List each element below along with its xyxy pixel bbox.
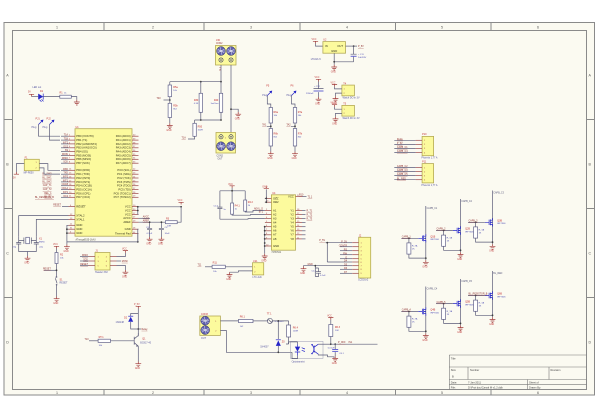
svg-text:LS1: LS1 bbox=[253, 260, 258, 263]
wire R30 top bbox=[200, 82, 202, 94]
mcu pin PD4 bbox=[69, 184, 92, 188]
svg-text:IRF7306: IRF7306 bbox=[497, 296, 506, 298]
svg-text:GND: GND bbox=[24, 263, 29, 265]
resistor R5a bbox=[168, 85, 178, 97]
svg-text:P_OFF: P_OFF bbox=[338, 342, 346, 344]
mcu pin PB1 bbox=[69, 138, 88, 142]
net label CAPB_2 bbox=[436, 228, 453, 232]
svg-text:R5a: R5a bbox=[173, 86, 178, 89]
svg-text:GND: GND bbox=[422, 267, 427, 269]
ic2 pin A2 bbox=[265, 212, 277, 216]
isp pin stub R2 bbox=[110, 260, 117, 262]
svg-text:GND: GND bbox=[308, 264, 313, 266]
svg-text:100R: 100R bbox=[293, 330, 299, 332]
wire watch T4 pin2 bbox=[336, 93, 342, 96]
svg-text:CAP_T1: CAP_T1 bbox=[43, 184, 53, 187]
wire opto led bottom bbox=[292, 352, 298, 358]
svg-text:REL_1: REL_1 bbox=[44, 193, 52, 195]
phoenix connector P10 bbox=[421, 133, 437, 160]
svg-text:CAPB_C3: CAPB_C3 bbox=[493, 191, 504, 194]
mcu pin GND4 bbox=[125, 227, 139, 231]
buffer U4 74HC541 bbox=[271, 192, 295, 254]
ic2 pin A8 bbox=[265, 237, 277, 241]
lcd pin 8 bbox=[352, 269, 362, 271]
mcu pin PC5 bbox=[118, 188, 138, 192]
ground Q6B bbox=[489, 317, 495, 326]
fuse F2 bbox=[267, 313, 285, 324]
lcd pin 4 bbox=[352, 255, 362, 257]
isp pin stub L3 bbox=[89, 265, 96, 267]
power flag VCC reset bbox=[53, 244, 59, 249]
svg-text:Y7: Y7 bbox=[290, 233, 294, 237]
svg-text:Y8: Y8 bbox=[290, 237, 294, 241]
svg-text:File:: File: bbox=[451, 386, 456, 390]
svg-text:PD5 (OC1A): PD5 (OC1A) bbox=[76, 188, 92, 192]
svg-text:C: C bbox=[6, 252, 9, 256]
svg-text:J30: J30 bbox=[216, 39, 221, 42]
svg-text:C4.1: C4.1 bbox=[312, 271, 317, 273]
svg-text:PC1 (SDA): PC1 (SDA) bbox=[117, 172, 131, 176]
resistor gate Q3B bbox=[474, 227, 485, 238]
ic2 pin A3 bbox=[265, 216, 277, 220]
ic2 pin A6 bbox=[265, 229, 277, 233]
wire xtal gnd rail bbox=[19, 248, 37, 256]
ground Q5B bbox=[457, 325, 463, 334]
svg-text:3: 3 bbox=[250, 26, 252, 30]
wire pullup to node bbox=[330, 337, 332, 345]
ic2 pin Y1 bbox=[290, 208, 302, 212]
lcd pin 1 bbox=[352, 243, 362, 245]
mcu pin PC1 bbox=[117, 172, 138, 176]
wire rc to ic2 a1 bbox=[220, 218, 265, 221]
svg-text:5: 5 bbox=[441, 26, 443, 30]
phoenix pin wire CAPB_C5 bbox=[394, 173, 422, 176]
svg-text:BL_RESISTOR_B: BL_RESISTOR_B bbox=[35, 197, 54, 199]
svg-text:TA2: TA2 bbox=[286, 123, 291, 126]
svg-text:PJ2: PJ2 bbox=[47, 118, 52, 121]
svg-text:GND: GND bbox=[125, 227, 131, 231]
wire ic2 out Y6 bbox=[302, 230, 306, 232]
svg-text:CAPB_2: CAPB_2 bbox=[437, 228, 447, 231]
lcd pin 7 bbox=[352, 266, 362, 268]
wire gate resistor top bbox=[408, 238, 410, 243]
wire rc to ic2 a3 bbox=[245, 210, 265, 212]
svg-text:CAPB_C1: CAPB_C1 bbox=[397, 146, 408, 149]
svg-text:Optotransist: Optotransist bbox=[292, 360, 305, 363]
svg-text:Q4B: Q4B bbox=[430, 309, 435, 312]
ic2 pin A1 bbox=[265, 208, 277, 212]
svg-text:A7: A7 bbox=[273, 233, 277, 237]
led D1 bbox=[33, 86, 44, 102]
svg-text:CAPB_C4: CAPB_C4 bbox=[397, 150, 408, 153]
wire net INT2 bbox=[61, 142, 69, 144]
wire net MOSI bbox=[61, 154, 69, 156]
transistor Q1 BC817 bbox=[134, 333, 152, 349]
svg-text:PC2 (TCK): PC2 (TCK) bbox=[117, 176, 131, 180]
wire lcd D4 bbox=[340, 261, 352, 263]
ground divider left bbox=[166, 123, 172, 132]
lcd pin 2 bbox=[352, 247, 362, 249]
ground watch T4 bbox=[332, 96, 338, 105]
svg-text:LCD16x2: LCD16x2 bbox=[358, 279, 369, 282]
svg-text:GND: GND bbox=[53, 303, 58, 305]
svg-text:Drawn By:: Drawn By: bbox=[529, 386, 541, 390]
svg-text:PC5 (TDI): PC5 (TDI) bbox=[118, 188, 130, 192]
mcu pin PA2 bbox=[116, 142, 139, 146]
net label BL_RESISTOR_B bbox=[468, 294, 488, 297]
wire led to R1 bbox=[43, 96, 60, 98]
phoenix pin wire CAPB_C4 bbox=[394, 150, 422, 153]
svg-text:6: 6 bbox=[537, 391, 539, 395]
wire xtal2 bbox=[19, 216, 69, 237]
svg-text:CONTR: CONTR bbox=[339, 245, 348, 247]
wire CAPB_C3 vertical bbox=[492, 191, 494, 245]
wire net T1B bbox=[61, 139, 69, 141]
svg-text:P_5V: P_5V bbox=[341, 241, 347, 243]
svg-text:P_5V: P_5V bbox=[134, 304, 140, 306]
svg-text:OC2: OC2 bbox=[63, 196, 68, 198]
net label CAPB_4 bbox=[401, 309, 418, 313]
mcu pin VCC3 bbox=[125, 212, 139, 216]
svg-text:R40: R40 bbox=[214, 99, 219, 102]
svg-text:AVCC: AVCC bbox=[143, 216, 150, 219]
wire P6 gnd bbox=[294, 146, 296, 152]
svg-text:D:\Prot doc\Canok M v1.2.ddb: D:\Prot doc\Canok M v1.2.ddb bbox=[468, 386, 503, 390]
svg-text:TA1: TA1 bbox=[262, 123, 267, 126]
isp pin stub R1 bbox=[110, 256, 117, 258]
svg-text:Title: Title bbox=[451, 357, 456, 361]
resistor R1 bbox=[60, 92, 72, 99]
svg-text:10K: 10K bbox=[335, 330, 339, 332]
svg-text:4: 4 bbox=[346, 26, 348, 30]
wire gate resistor top bbox=[408, 312, 410, 317]
power flag VCC isp bbox=[122, 248, 128, 252]
probe P5 bbox=[262, 85, 272, 98]
wire p5v down bbox=[131, 309, 139, 337]
lcd pin 3 bbox=[352, 251, 362, 253]
wire zener bottom bbox=[277, 346, 279, 352]
resistor R50 lower bbox=[193, 123, 203, 136]
wire ic2 vcc out bbox=[299, 195, 313, 199]
wire gate resistor bottom bbox=[409, 327, 426, 331]
svg-text:R30: R30 bbox=[194, 99, 199, 102]
junction mosfet gnd bbox=[492, 314, 494, 316]
svg-text:OUT: OUT bbox=[337, 44, 343, 48]
wire isp vcc bbox=[117, 253, 126, 257]
wire gate resistor bottom bbox=[476, 238, 493, 242]
svg-text:GND: GND bbox=[292, 158, 297, 160]
ground con branch bbox=[235, 112, 241, 121]
svg-text:PD2 (INT0): PD2 (INT0) bbox=[76, 176, 90, 180]
ground aref c3 bbox=[146, 237, 152, 246]
mcu pin PD7 bbox=[69, 195, 90, 199]
mcu pin PD0 bbox=[69, 168, 91, 172]
diode D2 flyback bbox=[116, 316, 134, 324]
resistor gate Q2B bbox=[442, 235, 453, 246]
svg-text:VCC: VCC bbox=[331, 82, 336, 84]
capacitor C2 xtal bbox=[34, 236, 44, 248]
wire net INT0 bbox=[61, 177, 69, 179]
svg-text:OE2: OE2 bbox=[273, 200, 279, 204]
lcd pin 5 bbox=[352, 259, 362, 261]
svg-text:RESET: RESET bbox=[60, 282, 69, 285]
mcu pin PC7 bbox=[114, 195, 139, 199]
svg-text:Q5B: Q5B bbox=[465, 301, 470, 304]
junction bottom rail bbox=[200, 119, 222, 121]
wire ic2 out Y4 bbox=[302, 222, 306, 224]
svg-text:BL_SW1: BL_SW1 bbox=[42, 177, 52, 179]
svg-text:Watch DO in 3V: Watch DO in 3V bbox=[343, 97, 360, 100]
jack CON1 A bbox=[217, 47, 226, 63]
power flag VBAT bbox=[13, 172, 19, 179]
svg-text:VCC: VCC bbox=[178, 200, 183, 202]
wire lcd P_5V bbox=[340, 241, 352, 243]
power flag VCC bigcap bbox=[315, 77, 322, 81]
phoenix pin wire P_5V bbox=[394, 143, 422, 145]
svg-text:VCC: VCC bbox=[312, 39, 317, 41]
svg-text:CAPB_C1: CAPB_C1 bbox=[427, 207, 438, 210]
mcu pin PA0 bbox=[116, 134, 139, 138]
watch input T4 bbox=[342, 82, 360, 99]
svg-text:BL_RED: BL_RED bbox=[493, 273, 502, 275]
capacitor C4 aref bbox=[159, 221, 170, 237]
sounder LD1 bbox=[253, 260, 264, 279]
svg-text:Q3B: Q3B bbox=[497, 219, 502, 222]
svg-text:Phoenix 1,77 A: Phoenix 1,77 A bbox=[421, 157, 437, 160]
mcu pin PD5 bbox=[69, 188, 92, 192]
svg-text:R_TA: R_TA bbox=[479, 302, 485, 305]
wire con3 pin1 to R61 bbox=[220, 320, 238, 322]
wire xtal1 bbox=[36, 219, 68, 236]
junction con2 gnd bbox=[230, 108, 232, 110]
svg-text:Number: Number bbox=[470, 368, 479, 372]
svg-text:R50: R50 bbox=[198, 125, 203, 128]
svg-text:GND: GND bbox=[76, 223, 82, 227]
svg-text:B: B bbox=[452, 375, 454, 379]
power flag watch T4 bbox=[331, 82, 338, 86]
ground P6 bbox=[292, 152, 298, 161]
mosfet Q3B bbox=[485, 218, 506, 226]
svg-text:CAPB_C5: CAPB_C5 bbox=[397, 173, 408, 176]
phoenix pin wire Relay bbox=[394, 139, 422, 141]
wire F1 pin1 bbox=[39, 164, 60, 171]
svg-text:Y3: Y3 bbox=[290, 216, 294, 220]
isp pin stub L1 bbox=[89, 256, 96, 258]
wire opto emitter bbox=[318, 354, 334, 358]
svg-text:R6.3: R6.3 bbox=[335, 326, 341, 329]
optocoupler U5 bbox=[290, 341, 323, 363]
svg-text:Revision: Revision bbox=[551, 368, 562, 372]
wire fuse to node bbox=[273, 321, 289, 339]
svg-text:PB5 (MOSI): PB5 (MOSI) bbox=[76, 153, 91, 157]
svg-text:IN: IN bbox=[325, 44, 328, 48]
svg-text:GND: GND bbox=[273, 244, 279, 248]
resistor R61 bbox=[239, 316, 254, 328]
svg-text:CAP_T2: CAP_T2 bbox=[43, 188, 53, 191]
svg-text:Y4: Y4 bbox=[290, 221, 294, 225]
wire CAPB_C4 vertical bbox=[425, 287, 427, 334]
svg-text:BL_RESISTOR_B: BL_RESISTOR_B bbox=[469, 294, 488, 296]
row ticks left bbox=[4, 120, 13, 298]
svg-text:CAPB_C2: CAPB_C2 bbox=[461, 200, 472, 203]
svg-text:R5b: R5b bbox=[173, 105, 178, 108]
junction mosfet gnd bbox=[425, 330, 427, 332]
capacitor C61 bbox=[328, 344, 345, 356]
mcu pin thermal pad bbox=[115, 231, 139, 235]
mcu pin PC3 bbox=[117, 180, 139, 184]
svg-text:R6b: R6b bbox=[274, 133, 279, 136]
svg-text:VCC: VCC bbox=[315, 77, 320, 79]
mcu pin PB2 bbox=[69, 142, 98, 146]
svg-text:LT1021-5: LT1021-5 bbox=[311, 58, 322, 61]
phoenix pin wire CAPB_C1 bbox=[394, 146, 422, 149]
ground ic2 tie bbox=[261, 254, 267, 263]
svg-text:Sheet of: Sheet of bbox=[529, 381, 539, 385]
svg-text:Relay: Relay bbox=[142, 329, 149, 331]
resistor gate Q4B bbox=[407, 316, 418, 327]
svg-text:PB4 (SS): PB4 (SS) bbox=[76, 150, 88, 154]
wire gate resistor bottom bbox=[444, 319, 461, 323]
svg-text:A6: A6 bbox=[273, 229, 277, 233]
mcu pin XTAL1 bbox=[69, 217, 85, 221]
svg-text:0.1A/60V: 0.1A/60V bbox=[275, 320, 285, 323]
svg-text:ADXL_D: ADXL_D bbox=[254, 207, 263, 210]
svg-text:XTAL2: XTAL2 bbox=[76, 214, 85, 218]
svg-text:P_5V: P_5V bbox=[397, 143, 403, 145]
svg-text:2: 2 bbox=[152, 26, 154, 30]
svg-text:GND: GND bbox=[122, 277, 127, 279]
svg-text:6: 6 bbox=[537, 26, 539, 30]
probe P6 bbox=[287, 85, 297, 98]
wire p5v junction lcd bbox=[326, 242, 340, 262]
svg-text:GND: GND bbox=[64, 251, 69, 253]
svg-text:LED out: LED out bbox=[33, 86, 42, 89]
svg-text:OUT: OUT bbox=[218, 158, 223, 160]
svg-text:Header 3X2: Header 3X2 bbox=[95, 271, 108, 274]
wire watch T4 pin1 bbox=[335, 87, 342, 89]
wire opto led top bbox=[286, 342, 298, 344]
wire R50 top bbox=[194, 120, 196, 123]
mosfet Q1B bbox=[418, 234, 439, 242]
mcu pin PA1 bbox=[116, 138, 139, 142]
svg-text:R6a: R6a bbox=[274, 111, 279, 114]
wire mcu gnd bus bbox=[67, 225, 138, 244]
svg-text:A8: A8 bbox=[273, 237, 277, 241]
svg-text:GND: GND bbox=[262, 187, 267, 189]
svg-text:R4.1: R4.1 bbox=[235, 205, 241, 208]
svg-text:PA3 (ADC3): PA3 (ADC3) bbox=[116, 146, 131, 150]
svg-text:PC6 (TOSC1): PC6 (TOSC1) bbox=[114, 191, 131, 195]
svg-text:RESET: RESET bbox=[53, 205, 61, 207]
jack CON3 B bbox=[201, 326, 210, 335]
svg-text:PD3 (INT1): PD3 (INT1) bbox=[76, 180, 90, 184]
mosfet Q6B bbox=[485, 291, 506, 299]
svg-text:PA7 (ADC7): PA7 (ADC7) bbox=[116, 161, 131, 165]
phoenix pin wire BL_RED bbox=[394, 178, 422, 180]
net label CAPB_1 bbox=[401, 236, 418, 240]
label CON2 OUT bbox=[217, 156, 224, 161]
wire gnd port to OE pins bbox=[265, 189, 266, 202]
svg-text:PC0 (SCL): PC0 (SCL) bbox=[117, 168, 130, 172]
svg-text:IRF7306: IRF7306 bbox=[465, 304, 474, 306]
svg-text:RESET: RESET bbox=[80, 264, 88, 266]
svg-text:IRF7306: IRF7306 bbox=[465, 231, 474, 233]
svg-text:Q1B: Q1B bbox=[430, 235, 435, 238]
mcu pin AVCC bbox=[123, 216, 138, 220]
svg-text:RT.1: RT.1 bbox=[99, 336, 105, 339]
svg-text:PB7 (SCK): PB7 (SCK) bbox=[76, 161, 90, 165]
capacitor C14 lcd bbox=[312, 271, 327, 277]
svg-text:VCC: VCC bbox=[125, 205, 131, 209]
wire r64 top bbox=[288, 321, 290, 325]
svg-text:PD4 (OC1B): PD4 (OC1B) bbox=[76, 184, 92, 188]
svg-text:VCC: VCC bbox=[53, 244, 58, 246]
svg-text:IRF7306: IRF7306 bbox=[430, 312, 439, 314]
svg-text:PB2 (AIN0/INT2): PB2 (AIN0/INT2) bbox=[76, 142, 97, 146]
svg-text:Thermal Pad: Thermal Pad bbox=[115, 231, 131, 235]
mcu pin PC2 bbox=[117, 176, 138, 180]
svg-text:PA2 (ADC2): PA2 (ADC2) bbox=[116, 142, 131, 146]
wire mcu gnd right pin bbox=[137, 229, 140, 242]
wire net T1A bbox=[61, 134, 69, 137]
svg-text:MF-R050: MF-R050 bbox=[24, 171, 35, 174]
junction dots gnd bus bbox=[66, 228, 139, 243]
svg-text:PA5 (ADC5): PA5 (ADC5) bbox=[116, 153, 131, 157]
svg-text:C: C bbox=[589, 252, 592, 256]
svg-text:VCC: VCC bbox=[327, 316, 332, 318]
svg-text:PB0 (XCK/T0): PB0 (XCK/T0) bbox=[76, 134, 94, 138]
svg-text:GND: GND bbox=[76, 231, 82, 235]
resistor R5b bbox=[168, 103, 178, 117]
wire BL_RED vertical bbox=[492, 271, 494, 317]
svg-text:5: 5 bbox=[441, 391, 443, 395]
lcd connector J2 bbox=[358, 234, 371, 281]
capacitor C3 aref bbox=[146, 221, 153, 237]
capacitor C1 xtal bbox=[13, 236, 22, 248]
ground Q3B bbox=[489, 244, 495, 253]
mcu pin PA5 bbox=[116, 153, 139, 157]
svg-text:PC7 (TOSC2): PC7 (TOSC2) bbox=[114, 195, 131, 199]
svg-text:T1A: T1A bbox=[182, 137, 187, 140]
net label T11 bbox=[198, 264, 213, 266]
svg-text:T1.1: T1.1 bbox=[308, 197, 313, 199]
wire net OC0 bbox=[61, 146, 69, 148]
svg-text:C4.2: C4.2 bbox=[214, 206, 219, 208]
svg-text:R6.1: R6.1 bbox=[240, 316, 246, 319]
svg-text:Q6B: Q6B bbox=[497, 293, 502, 296]
ic2 pin OE2 bbox=[265, 200, 279, 204]
wire emitter gnd bbox=[137, 349, 139, 362]
svg-text:BT1: BT1 bbox=[259, 212, 264, 214]
svg-text:CAPB_C3: CAPB_C3 bbox=[397, 169, 408, 172]
wire switch to gnd bbox=[56, 286, 58, 297]
net label Relay bbox=[138, 329, 148, 331]
svg-text:A5: A5 bbox=[273, 225, 277, 229]
ic2 pin Y2 bbox=[290, 212, 302, 216]
wire gate resistor bottom bbox=[409, 254, 426, 258]
wire ic2 out Y5 bbox=[302, 226, 306, 228]
wire ic2 out Y2 bbox=[302, 214, 306, 216]
svg-text:R_TA: R_TA bbox=[447, 310, 453, 313]
wire probe PJ2 to PB1 bbox=[50, 125, 61, 141]
wire ic2 unused tie bbox=[264, 227, 266, 254]
wire net SCK bbox=[61, 162, 69, 164]
wire R1 to gnd bbox=[71, 97, 77, 100]
svg-text:BL_RED: BL_RED bbox=[397, 178, 406, 180]
wire net TXD bbox=[61, 173, 69, 175]
junction mosfet gnd bbox=[460, 249, 462, 251]
phoenix pin wire CAPB_C2 bbox=[394, 165, 422, 168]
